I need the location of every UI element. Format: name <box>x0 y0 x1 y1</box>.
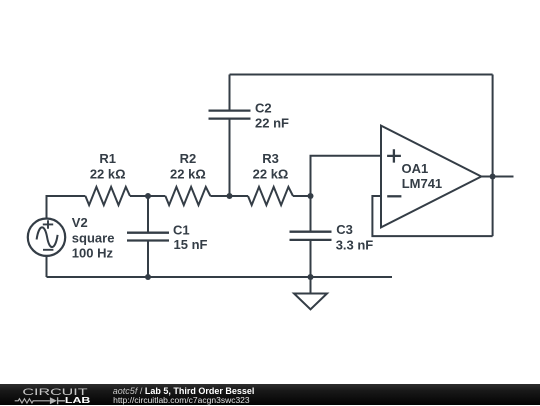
wire: R3 to node C <box>293 195 311 197</box>
wire: C1 bottom plate to ground rail <box>147 241 149 278</box>
junction dot C1 bottom on ground rail <box>145 274 151 280</box>
node A junction dot (C1 top) <box>145 193 151 199</box>
svg-text:C2: C2 <box>255 101 272 116</box>
label OA1 / LM741 <box>402 161 443 191</box>
op-amp OA1 <box>381 126 481 228</box>
wire: node B up to C2 bottom plate <box>229 119 231 196</box>
capacitor C1 <box>127 233 169 241</box>
svg-text:R3: R3 <box>262 151 279 166</box>
svg-text:V2: V2 <box>72 215 88 230</box>
wire: R1 to R2 <box>130 195 165 197</box>
wire: ground rail <box>47 276 393 278</box>
footer bar <box>0 384 540 406</box>
ground symbol <box>294 294 327 310</box>
svg-text:100 Hz: 100 Hz <box>72 246 114 261</box>
svg-text:R2: R2 <box>180 151 197 166</box>
op-amp - input symbol <box>387 195 401 197</box>
node B junction dot (C2 bottom) <box>227 193 233 199</box>
wire: node A to C1 top plate <box>147 196 149 233</box>
label R1 / 22 kOhm <box>90 151 126 181</box>
wire: output stub <box>481 176 514 178</box>
wire: V2 bottom lead <box>46 256 48 277</box>
resistor R3 <box>248 187 293 205</box>
wire: C2 top plate to top feedback wire <box>229 75 231 111</box>
svg-text:LM741: LM741 <box>402 176 442 191</box>
svg-text:OA1: OA1 <box>402 161 429 176</box>
wire: node C up to op-amp + input <box>311 156 382 196</box>
wire: node C down to C3 top plate <box>310 196 312 232</box>
junction dot output node <box>490 174 496 180</box>
wire: C3 bottom plate to ground rail <box>310 240 312 277</box>
svg-text:22 kΩ: 22 kΩ <box>253 166 289 181</box>
wire: V2 top lead to R1 <box>47 196 86 219</box>
label R3 / 22 kOhm <box>253 151 289 181</box>
wire: ground stub <box>310 277 312 294</box>
svg-text:C3: C3 <box>336 222 353 237</box>
label R2 / 22 kOhm <box>170 151 206 181</box>
node C junction dot (R3/C3/op-amp +) <box>308 193 314 199</box>
label C1 / 15 nF <box>173 222 208 252</box>
voltage source V2 <box>28 219 65 256</box>
op-amp + input symbol <box>387 149 401 162</box>
svg-text:C1: C1 <box>173 222 190 237</box>
wire: R2 to R3 <box>210 195 248 197</box>
label C3 / 3.3 nF <box>336 222 374 253</box>
capacitor C2 <box>209 111 251 119</box>
label V2 / square / 100 Hz <box>72 215 115 261</box>
resistor R2 <box>165 187 210 205</box>
footer text <box>112 383 114 385</box>
wire: op-amp - input feedback loop <box>372 196 492 236</box>
svg-text:3.3 nF: 3.3 nF <box>336 238 374 253</box>
resistor R1 <box>85 187 130 205</box>
CircuitLab logo <box>0 384 110 406</box>
wire: right rail down to output node and bottom feedback <box>492 75 494 237</box>
svg-text:15 nF: 15 nF <box>174 237 208 252</box>
svg-text:R1: R1 <box>99 151 116 166</box>
svg-text:square: square <box>72 231 115 246</box>
svg-text:22 kΩ: 22 kΩ <box>90 166 126 181</box>
wire: top feedback rail <box>230 74 493 76</box>
svg-text:22 kΩ: 22 kΩ <box>170 166 206 181</box>
label C2 / 22 nF <box>255 101 289 131</box>
svg-text:22 nF: 22 nF <box>255 116 289 131</box>
junction dot C3 bottom on ground rail <box>308 274 314 280</box>
capacitor C3 <box>290 232 332 240</box>
svg-text:LAB: LAB <box>65 396 91 405</box>
